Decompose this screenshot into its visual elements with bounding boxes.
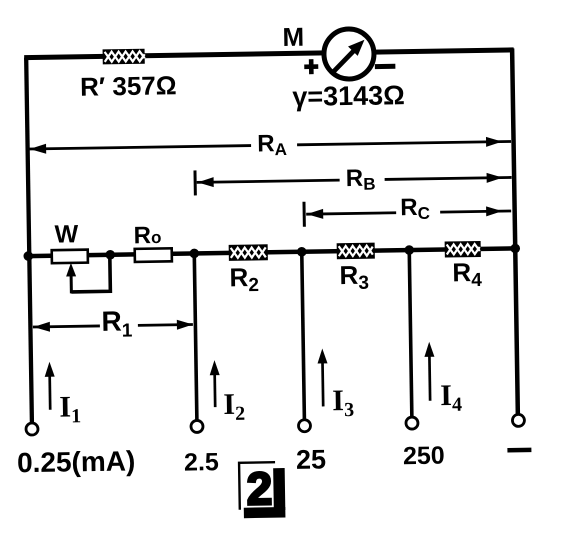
junction: bus right corner xyxy=(510,244,520,254)
wire: right vertical from top wire to terminal 5 xyxy=(512,48,518,414)
junction: bus left corner xyxy=(23,251,33,261)
terminal 5 xyxy=(512,414,524,426)
svg-text:γ=3143Ω: γ=3143Ω xyxy=(292,80,405,112)
potentiometer W (open box) xyxy=(52,250,88,264)
terminal 3 xyxy=(298,420,310,432)
current arrow I2 xyxy=(209,360,220,407)
resistor R2 (hatched box) xyxy=(229,244,268,261)
terminal 1 (open circle) xyxy=(26,423,38,435)
wire: vertical from bus to terminal 4 xyxy=(409,250,412,417)
junction: W wiper / R0 node xyxy=(105,250,115,260)
junction: R2 / R3 node xyxy=(297,247,307,257)
current arrow I4 xyxy=(424,342,435,401)
wire: main horizontal bus xyxy=(28,248,515,256)
op: meter M (circle with needle) xyxy=(324,29,375,80)
dimension arrow RB (with left end bar) xyxy=(195,165,512,195)
svg-text:0.25(mA): 0.25(mA) xyxy=(17,445,136,478)
svg-text:M: M xyxy=(282,22,304,52)
figure number 2 box xyxy=(239,462,285,518)
wire: vertical from bus to terminal 3 xyxy=(302,252,305,420)
wire: wiper arm of W (down, right, up to bus) xyxy=(66,255,111,294)
resistor R4 (hatched box) xyxy=(445,241,481,258)
terminal 4 xyxy=(406,417,418,429)
label - (meter polarity) xyxy=(375,64,396,69)
svg-text:W: W xyxy=(54,220,78,248)
svg-text:25: 25 xyxy=(296,444,327,474)
terminal 2 xyxy=(191,420,203,432)
wire: top horizontal right segment (meter to right corner) xyxy=(373,50,514,52)
dimension arrow RA xyxy=(29,136,511,154)
current arrow I3 xyxy=(317,348,328,406)
resistor R' (hatched box on top wire) xyxy=(103,49,145,65)
dimension arrow RC (with left end bar) xyxy=(304,198,511,226)
junction: R3 / R4 node xyxy=(404,245,414,255)
resistor R3 (hatched box) xyxy=(337,243,375,260)
dimension arrow R1 xyxy=(33,319,193,332)
wire: top horizontal left segment (corner to meter) xyxy=(24,53,325,58)
label minus terminal xyxy=(507,448,531,453)
svg-text:2.5: 2.5 xyxy=(184,448,219,477)
wire: vertical from bus to terminal 2 xyxy=(194,253,197,420)
svg-text:2: 2 xyxy=(246,462,272,514)
svg-text:R′ 357Ω: R′ 357Ω xyxy=(80,70,177,102)
svg-text:250: 250 xyxy=(403,442,445,471)
junction: R0 / R2 node xyxy=(189,249,199,259)
wire: left vertical from top wire to terminal 1 xyxy=(26,58,32,423)
resistor R0 (open box) xyxy=(135,248,172,262)
label + (meter polarity) xyxy=(304,59,318,74)
current arrow I1 xyxy=(44,362,55,410)
